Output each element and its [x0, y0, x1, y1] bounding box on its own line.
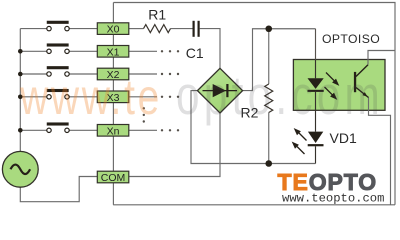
wire row X3 left — [20, 96, 47, 98]
wire row X1 left — [20, 50, 47, 52]
svg-text:R1: R1 — [148, 7, 166, 23]
wire row X1 switch to box — [69, 50, 97, 52]
VD1 emission arrows — [293, 129, 307, 154]
dots vertical ellipsis between X3 and Xn — [143, 107, 145, 123]
wire R1 to C1 — [171, 28, 193, 30]
wire bottom rail — [113, 204, 395, 206]
junction dot left bus row X3 — [18, 95, 23, 100]
switch S4 (row X3) — [47, 89, 69, 99]
wire row X1 continuation — [129, 50, 157, 52]
terminal box COM — [97, 171, 129, 184]
wire row X2 left — [20, 73, 47, 75]
wire X0 box to R1 — [129, 28, 144, 30]
svg-text:X0: X0 — [107, 24, 120, 36]
wire left bus vertical — [19, 29, 21, 152]
opto transistor — [354, 51, 395, 98]
wire row Xn switch to box — [69, 129, 97, 131]
dots row Xn continuation — [161, 129, 179, 131]
resistor R1 zigzag — [144, 25, 171, 33]
terminal box Xn — [97, 125, 129, 138]
wire row X3 continuation — [129, 96, 157, 98]
wire row X0 left — [20, 28, 47, 30]
wire row Xn continuation — [129, 129, 157, 131]
switch S5 (row Xn) — [47, 122, 69, 132]
wire bridge left to bottom node rail — [191, 91, 316, 164]
junction dot top node at R2 — [265, 25, 272, 32]
wire opto LED cathode to VD1 — [315, 92, 317, 132]
resistor R2 zigzag — [265, 84, 273, 113]
junction dot left bus row X2 — [18, 72, 23, 77]
junction dot bottom node at R2 — [265, 160, 272, 167]
bridge rectifier — [197, 68, 242, 113]
junction dot left bus row X1 — [18, 49, 23, 54]
terminal box X0 — [97, 23, 129, 36]
wire bridge right up to top node — [243, 29, 316, 91]
svg-text:X1: X1 — [107, 46, 120, 58]
AC source G1 — [2, 151, 38, 187]
svg-text:OPTOISO: OPTOISO — [322, 32, 380, 46]
wire emitter drop to bottom rail — [369, 98, 391, 205]
LED VD1 — [308, 132, 324, 147]
wire row Xn left — [20, 129, 47, 131]
capacitor C1 plates — [193, 21, 200, 37]
wire C1 to bridge top — [200, 29, 220, 69]
dots row X1 continuation — [161, 50, 179, 52]
svg-text:www.teopto.com: www.teopto.com — [282, 192, 384, 206]
wire X terminal bus vertical — [112, 3, 114, 205]
terminal box X2 — [97, 68, 129, 81]
opto light arrows — [325, 73, 339, 99]
optocoupler U1 box — [293, 60, 385, 111]
svg-text:VD1: VD1 — [330, 130, 357, 146]
terminal box X1 — [97, 46, 129, 59]
junction dot left bus row Xn — [18, 128, 23, 133]
svg-text:opto.com: opto.com — [176, 66, 384, 127]
wire AC bottom to COM left — [20, 177, 97, 202]
dots row X3 continuation — [161, 96, 179, 98]
dots row X2 continuation — [161, 73, 179, 75]
switch S2 (row X1) — [47, 43, 69, 53]
svg-text:Xn: Xn — [107, 125, 120, 137]
wire COM right to bridge bottom — [129, 113, 220, 177]
opto LED — [308, 78, 324, 92]
switch S3 (row X2) — [47, 66, 69, 76]
switch S1 (row X0) — [47, 21, 69, 31]
terminal box X3 — [97, 91, 129, 104]
wire row X2 continuation — [129, 73, 157, 75]
svg-text:www.te: www.te — [19, 68, 162, 125]
wire row X2 switch to box — [69, 73, 97, 75]
svg-text:C1: C1 — [186, 45, 204, 61]
wire opto LED anode drop — [315, 29, 317, 60]
wire top rail from X bus to right side — [113, 3, 395, 205]
wire row X0 switch to box — [69, 28, 97, 30]
svg-text:COM: COM — [101, 172, 126, 184]
wire VD1 cathode down — [315, 146, 317, 163]
wire row X3 switch to box — [69, 96, 97, 98]
wire R2 lower lead — [268, 113, 270, 164]
wire R2 branch vertical — [268, 29, 270, 84]
